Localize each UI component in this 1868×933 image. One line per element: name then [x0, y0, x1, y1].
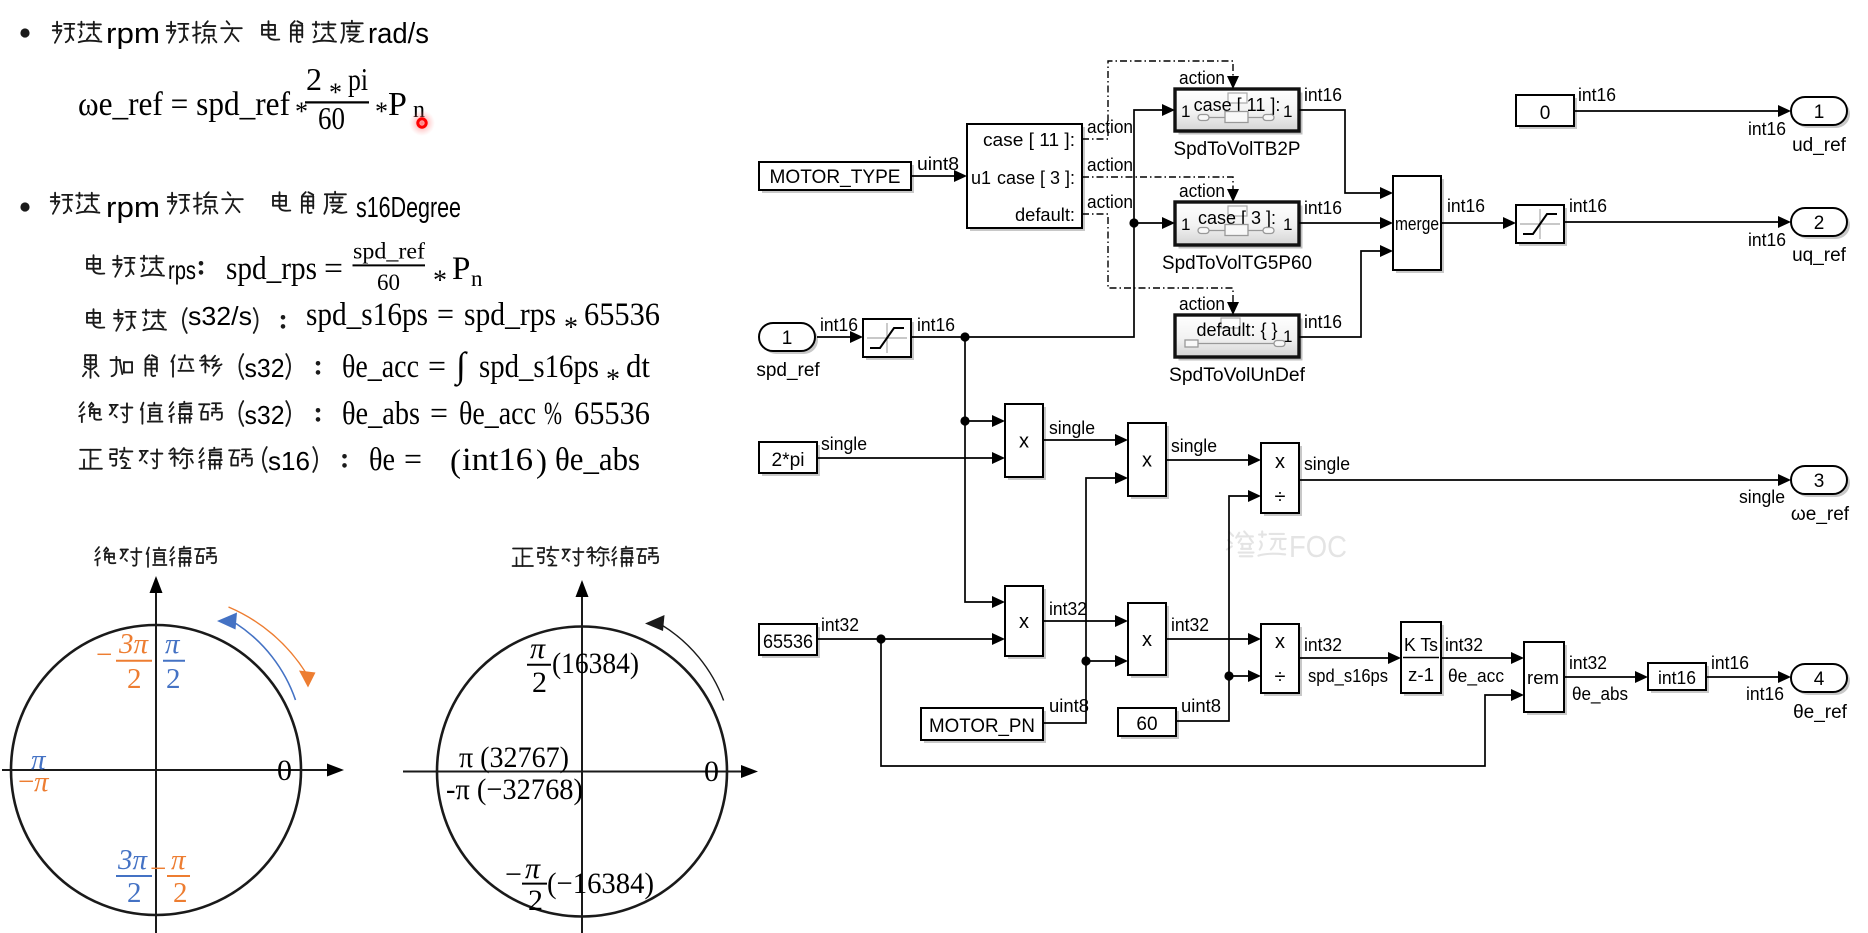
svg-text:int32: int32	[1049, 599, 1087, 619]
block product P1	[1005, 404, 1046, 480]
label -pi/2 orange bottom	[150, 844, 190, 909]
svg-text:case [ 11 ]:: case [ 11 ]:	[983, 130, 1075, 150]
svg-text:single: single	[1171, 436, 1217, 456]
svg-text:action: action	[1087, 117, 1133, 137]
svg-text:merge: merge	[1395, 214, 1439, 234]
block constant MOTOR_PN	[921, 708, 1046, 743]
wire MOTOR_TYPE to switch	[911, 175, 954, 177]
svg-text:rps: rps	[168, 255, 196, 285]
block integrator KTs	[1401, 622, 1444, 696]
text bullet2 cjk2	[168, 192, 243, 214]
svg-text:1: 1	[782, 328, 793, 349]
svg-text:action: action	[1087, 192, 1133, 212]
svg-text:θe: θe	[369, 442, 395, 478]
svg-text:3: 3	[1814, 471, 1825, 492]
svg-text:single: single	[821, 434, 867, 454]
svg-text:MOTOR_TYPE: MOTOR_TYPE	[770, 167, 901, 188]
svg-text:int16: int16	[1304, 312, 1342, 332]
svg-text:int16: int16	[1748, 119, 1786, 139]
wire conv to outport4	[1706, 676, 1778, 678]
svg-text:0: 0	[277, 754, 292, 787]
svg-text:s32: s32	[245, 400, 285, 430]
block saturation sat2	[1516, 205, 1567, 246]
svg-text:θe_abs: θe_abs	[342, 396, 420, 432]
svg-text:case [ 3 ]:: case [ 3 ]:	[997, 168, 1075, 188]
text L5 p2	[313, 447, 317, 472]
left circle	[11, 625, 301, 915]
text L3 p2	[286, 354, 290, 379]
subsystem SpdToVolUnDef	[1175, 315, 1303, 361]
svg-text:=: =	[404, 442, 422, 478]
label -pi/2 (-16384)	[505, 852, 654, 917]
svg-text:÷: ÷	[1275, 666, 1286, 688]
svg-text:1: 1	[1283, 102, 1292, 121]
wire spd_ref vertical	[960, 337, 992, 602]
svg-text:int16: int16	[1447, 196, 1485, 216]
block product P2	[1005, 586, 1046, 659]
svg-text:x: x	[1275, 451, 1285, 473]
svg-text:3π: 3π	[118, 628, 150, 660]
text L2 p1	[183, 308, 187, 333]
svg-text:2: 2	[166, 663, 181, 695]
svg-text:uq_ref: uq_ref	[1792, 245, 1847, 266]
svg-text:65536: 65536	[584, 297, 660, 333]
svg-text:=: =	[428, 349, 446, 385]
svg-text:dt: dt	[626, 349, 650, 385]
text L4 colon	[316, 408, 321, 422]
svg-text:65536: 65536	[574, 396, 650, 432]
svg-text:π: π	[525, 852, 541, 885]
svg-text:θe_abs: θe_abs	[1572, 684, 1628, 705]
svg-text:rem: rem	[1527, 668, 1559, 688]
label pi/2 blue	[163, 628, 185, 695]
svg-text:2: 2	[1814, 213, 1825, 234]
svg-text:single: single	[1304, 454, 1350, 474]
svg-text:spd_s16ps: spd_s16ps	[479, 349, 599, 385]
block divide D1	[1261, 443, 1302, 516]
svg-text:int32: int32	[1445, 635, 1483, 655]
wire sat1 to TG5P60	[1134, 222, 1162, 224]
svg-text:=: =	[324, 251, 343, 287]
wire 60 to D2	[1229, 675, 1248, 677]
svg-text:2: 2	[127, 663, 142, 695]
block conversion int16	[1648, 663, 1709, 693]
svg-text:θe_acc: θe_acc	[459, 396, 536, 432]
wire rem to conv	[1564, 676, 1635, 678]
wire MOTOR_PN to P4	[1086, 660, 1115, 662]
svg-text:rpm: rpm	[106, 192, 160, 224]
svg-text:int16: int16	[462, 442, 533, 478]
block switch-case	[967, 124, 1085, 231]
red laser pointer dot	[409, 110, 435, 136]
wire D1 to outport3	[1299, 479, 1778, 481]
svg-text:uint8: uint8	[1181, 696, 1221, 716]
svg-text:int32: int32	[1569, 653, 1607, 673]
svg-text:pi: pi	[348, 61, 368, 97]
svg-text:*: *	[433, 265, 447, 296]
block product P4	[1128, 603, 1169, 678]
text bullet2 cjk1	[51, 193, 100, 214]
bullet 2 marker	[20, 202, 29, 211]
svg-text:*: *	[564, 312, 578, 343]
svg-text:action: action	[1087, 155, 1133, 175]
svg-text:z-1: z-1	[1408, 665, 1434, 685]
text L4 p2	[286, 401, 290, 426]
text L4 p1	[239, 401, 243, 426]
watermark 澄远FOC	[1227, 529, 1347, 564]
block divide D2	[1261, 624, 1302, 696]
wire MOTOR_PN up	[1043, 478, 1115, 723]
svg-text:spd_ref: spd_ref	[756, 360, 820, 381]
text L5 colon	[342, 454, 347, 468]
svg-text:single: single	[1739, 487, 1785, 507]
svg-text:action: action	[1179, 294, 1225, 314]
block constant MOTOR_TYPE	[759, 162, 914, 193]
svg-text:−: −	[18, 766, 34, 798]
text bullet1 cjk3	[262, 21, 363, 43]
svg-text:1: 1	[1181, 102, 1190, 121]
svg-text:60: 60	[318, 100, 345, 136]
svg-text:2: 2	[173, 877, 188, 909]
svg-text:): )	[536, 444, 547, 480]
svg-text:ωe_ref = spd_ref: ωe_ref = spd_ref	[78, 86, 291, 123]
fraction bar L1	[353, 264, 426, 266]
block constant 60	[1118, 708, 1179, 739]
svg-text:int16: int16	[1658, 668, 1696, 688]
svg-text:1: 1	[1181, 215, 1190, 234]
wire merge to sat2	[1441, 222, 1503, 224]
svg-text:int16: int16	[1569, 196, 1607, 216]
wire P3 to D1	[1166, 459, 1248, 461]
text circleR title	[513, 547, 659, 567]
svg-text:θe_acc: θe_acc	[1448, 666, 1504, 687]
subsystem SpdToVolTB2P	[1175, 89, 1303, 135]
block constant 0	[1516, 95, 1577, 129]
wire TG5P60 to merge	[1299, 222, 1380, 224]
svg-text:spd_rps: spd_rps	[226, 251, 317, 287]
svg-text:*: *	[375, 97, 388, 126]
svg-text:60: 60	[377, 270, 400, 295]
svg-text:s16Degree: s16Degree	[356, 192, 461, 224]
text L2 colon	[281, 315, 286, 329]
svg-text:x: x	[1142, 629, 1152, 651]
text circleL title	[95, 547, 216, 568]
svg-text:int16: int16	[1578, 85, 1616, 105]
text L1 colon	[199, 261, 204, 275]
wire 65536 to P2	[817, 634, 992, 643]
svg-text:int16: int16	[917, 315, 955, 335]
svg-text:default: { }: default: { }	[1196, 320, 1277, 340]
wire D2 to KTs	[1299, 657, 1388, 659]
svg-text:−: −	[505, 858, 522, 891]
svg-text:(16384): (16384)	[552, 647, 639, 680]
label 3pi/2 blue bottom	[116, 844, 152, 909]
svg-text:=: =	[430, 396, 448, 432]
block outport we_ref	[1791, 466, 1850, 497]
svg-text:π: π	[171, 844, 187, 876]
svg-text:single: single	[1049, 418, 1095, 438]
svg-text:−: −	[96, 639, 112, 671]
svg-text:60: 60	[1136, 714, 1157, 735]
left circle orange cw arrow	[229, 607, 316, 688]
svg-text:π: π	[34, 766, 50, 798]
svg-text:2: 2	[532, 666, 547, 699]
block outport uq_ref	[1791, 208, 1850, 239]
text L4 label	[79, 402, 222, 424]
svg-text:θe_abs: θe_abs	[555, 442, 640, 478]
svg-text:3π: 3π	[117, 844, 149, 876]
svg-text:ud_ref: ud_ref	[1792, 135, 1847, 156]
svg-text:2: 2	[127, 877, 142, 909]
svg-text:MOTOR_PN: MOTOR_PN	[929, 716, 1035, 737]
svg-text:uint8: uint8	[1049, 696, 1089, 716]
wire P2 to P4	[1043, 620, 1115, 622]
text L2 label	[87, 309, 166, 331]
svg-text:65536: 65536	[763, 632, 813, 653]
text wm cjk	[1227, 531, 1286, 556]
svg-text:2: 2	[528, 884, 543, 917]
wire KTs to rem	[1441, 657, 1511, 659]
svg-text:s32: s32	[245, 353, 285, 383]
wire action default	[1082, 214, 1233, 304]
svg-text:2: 2	[306, 61, 322, 97]
svg-text:spd_ref: spd_ref	[353, 239, 425, 264]
label -3pi/2 orange	[96, 628, 152, 695]
svg-text:SpdToVolUnDef: SpdToVolUnDef	[1169, 365, 1306, 386]
block outport ud_ref	[1791, 97, 1850, 128]
svg-text:action: action	[1179, 68, 1225, 88]
block outport th_ref	[1791, 664, 1850, 695]
svg-text:x: x	[1142, 450, 1152, 472]
left circle axes	[2, 576, 344, 933]
block rem block	[1524, 642, 1567, 715]
right circle	[437, 627, 727, 917]
wire sat2 to outport2	[1564, 221, 1778, 223]
subsystem SpdToVolTG5P60	[1175, 202, 1303, 249]
svg-text:s32/s: s32/s	[188, 301, 252, 331]
svg-text:θe_ref: θe_ref	[1793, 702, 1848, 723]
svg-text:1: 1	[1814, 102, 1825, 123]
wire spd_ref to P1	[965, 420, 992, 422]
svg-text:÷: ÷	[1275, 486, 1286, 508]
svg-text:ωe_ref: ωe_ref	[1791, 504, 1850, 525]
svg-text:1: 1	[1283, 215, 1292, 234]
formula omega_e_ref	[78, 61, 425, 136]
block constant 2*pi	[759, 442, 820, 476]
svg-text:int32: int32	[1304, 635, 1342, 655]
text L2 p2	[254, 308, 258, 333]
svg-text:n: n	[471, 266, 483, 291]
label pi/2 (16384)	[527, 632, 639, 699]
svg-text:P: P	[388, 86, 407, 123]
block inport spd_ref	[759, 323, 818, 354]
svg-text:int32: int32	[1171, 615, 1209, 635]
svg-text:uint8: uint8	[917, 154, 959, 174]
svg-text:SpdToVolTB2P: SpdToVolTB2P	[1174, 139, 1301, 160]
text L1 label	[87, 255, 164, 277]
text bullet1 cjk2	[167, 21, 242, 43]
text L5 label	[80, 448, 252, 470]
wire P1 to P3	[1043, 439, 1115, 441]
label -pi orange left	[18, 766, 50, 798]
svg-text:x: x	[1019, 611, 1029, 633]
wire 2pi to P1	[817, 457, 992, 459]
svg-text:int16: int16	[1711, 653, 1749, 673]
svg-text:π: π	[165, 628, 181, 660]
svg-text:−: −	[150, 853, 166, 885]
svg-text:rad/s: rad/s	[368, 18, 429, 50]
svg-text:%: %	[544, 396, 562, 432]
wire sat1 right	[911, 110, 1162, 342]
svg-text:int16: int16	[1304, 198, 1342, 218]
svg-text:x: x	[1019, 431, 1029, 453]
svg-text:*: *	[606, 364, 620, 395]
text L3 colon	[316, 361, 321, 375]
svg-text:=: =	[437, 297, 454, 333]
block product P3	[1128, 423, 1169, 499]
left circle blue ccw arrow	[217, 613, 296, 701]
wire 0 to outport1	[1574, 110, 1778, 112]
wire TB2P to merge	[1299, 110, 1380, 193]
svg-text:spd_s16ps: spd_s16ps	[1308, 666, 1388, 687]
right circle axes	[403, 580, 758, 933]
wire UnDef to merge	[1299, 251, 1380, 337]
svg-text:P: P	[452, 251, 470, 287]
wire 65536 to rem	[881, 639, 1511, 766]
svg-text:int16: int16	[1304, 85, 1342, 105]
svg-text:(−16384): (−16384)	[547, 867, 654, 900]
svg-text:int32: int32	[821, 615, 859, 635]
svg-text:2*pi: 2*pi	[772, 450, 805, 471]
block constant 65536	[759, 624, 820, 658]
wire P4 to D2	[1166, 638, 1248, 640]
wire action case3	[1082, 177, 1233, 191]
svg-text:action: action	[1179, 181, 1225, 201]
svg-text:-π (−32768): -π (−32768)	[446, 773, 583, 806]
right circle black ccw arrow	[645, 615, 724, 701]
svg-text:π: π	[530, 632, 546, 665]
svg-text:(: (	[450, 444, 461, 480]
svg-text:default:: default:	[1015, 205, 1075, 225]
svg-text:s16: s16	[268, 446, 310, 476]
svg-text:K Ts: K Ts	[1404, 635, 1438, 655]
text L5 p1	[263, 447, 267, 472]
wire action case11	[1082, 61, 1233, 139]
svg-text:θe_acc: θe_acc	[342, 349, 419, 385]
svg-text:spd_rps: spd_rps	[464, 297, 556, 333]
svg-text:0: 0	[1540, 103, 1551, 124]
wire 60 up	[1176, 496, 1248, 721]
bullet 1 marker	[20, 28, 29, 37]
text bullet2 cjk3	[273, 192, 346, 214]
block merge block	[1393, 176, 1444, 273]
svg-text:SpdToVolTG5P60: SpdToVolTG5P60	[1162, 253, 1312, 274]
wire inport to sat1	[817, 336, 850, 338]
svg-text:int16: int16	[1748, 230, 1786, 250]
svg-text:π (32767): π (32767)	[459, 741, 569, 774]
svg-text:int16: int16	[1746, 684, 1784, 704]
svg-text:0: 0	[704, 755, 719, 788]
text L3 label	[83, 355, 222, 378]
svg-text:u1: u1	[971, 168, 991, 188]
svg-text:x: x	[1275, 631, 1285, 653]
svg-text:4: 4	[1814, 669, 1825, 690]
text bullet1 cjk1	[53, 22, 102, 43]
svg-text:spd_s16ps: spd_s16ps	[306, 297, 428, 333]
svg-text:rpm: rpm	[106, 18, 160, 50]
block saturation sat1	[863, 319, 914, 360]
svg-text:FOC: FOC	[1289, 529, 1347, 564]
text L3 p1	[239, 354, 243, 379]
svg-text:int16: int16	[820, 315, 858, 335]
